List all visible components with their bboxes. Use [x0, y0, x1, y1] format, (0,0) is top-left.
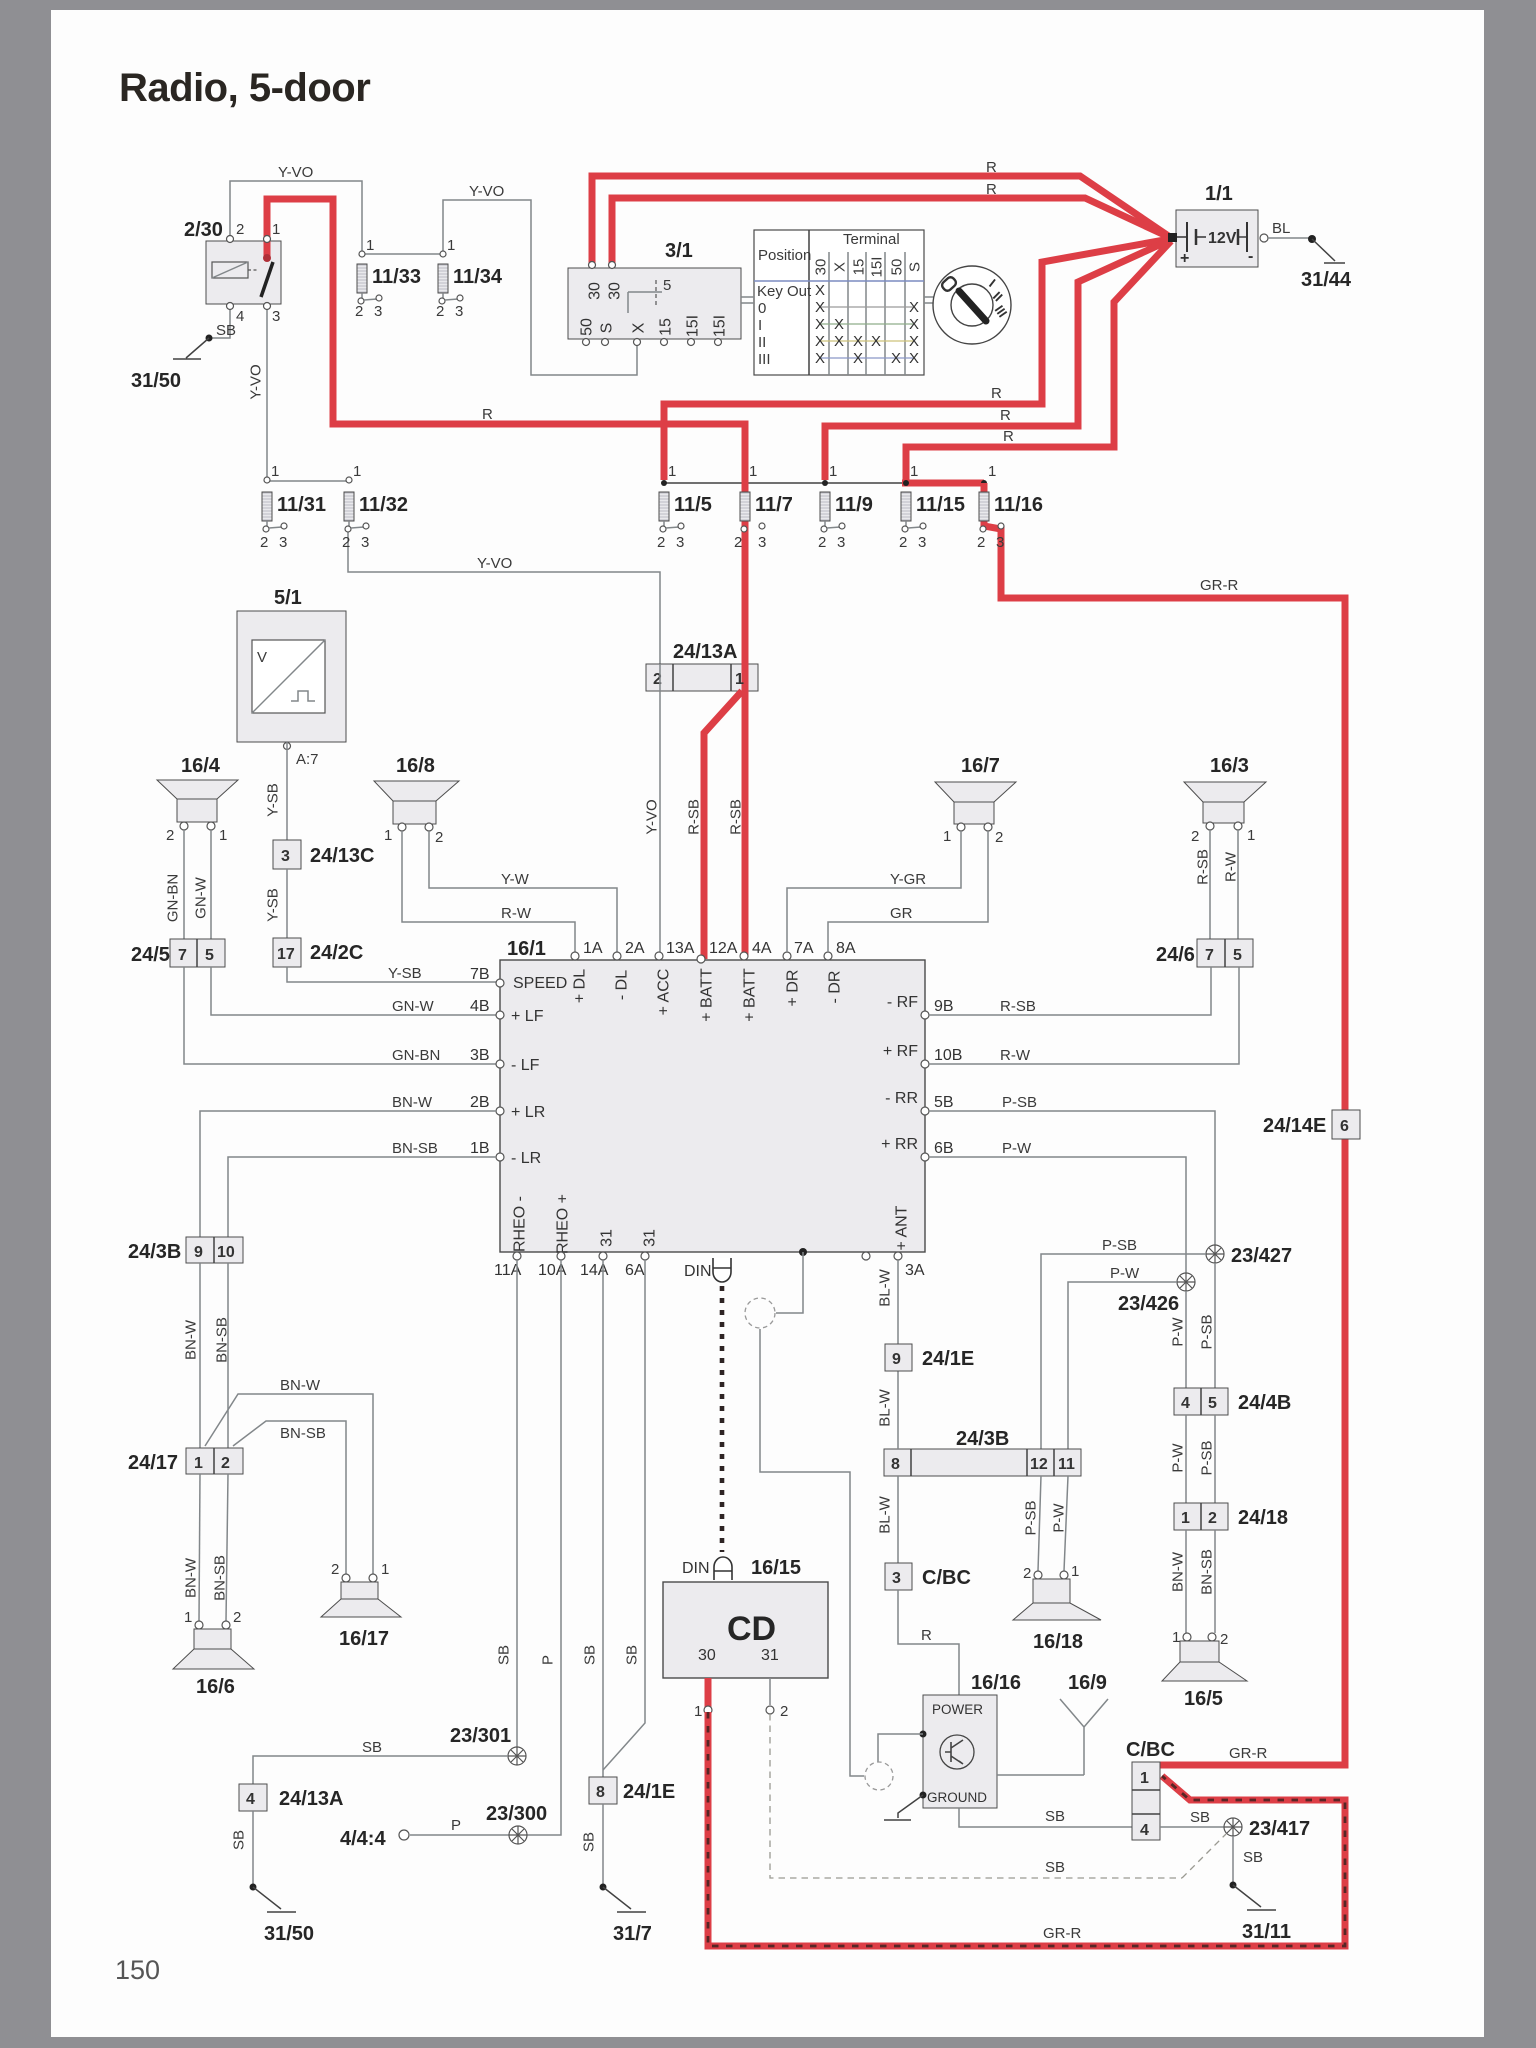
svg-text:V: V: [257, 649, 267, 666]
key switch icon: [933, 266, 1011, 344]
svg-text:2B: 2B: [470, 1094, 490, 1111]
svg-text:11: 11: [1058, 1456, 1075, 1473]
svg-text:R-SB: R-SB: [1194, 849, 1211, 885]
svg-text:31/44: 31/44: [1301, 269, 1352, 291]
svg-text:+ RR: + RR: [881, 1136, 918, 1153]
svg-text:SB: SB: [1190, 1809, 1210, 1826]
wire P-SB 23/427 down to 24/4B-5: [1214, 1263, 1216, 1388]
wire SB pin 11A to splice 23/301: [516, 1260, 518, 1747]
svg-text:SB: SB: [230, 1830, 247, 1850]
svg-text:1: 1: [943, 828, 951, 845]
svg-text:R-SB: R-SB: [1000, 998, 1036, 1015]
wires 24/3B to speaker 16/18: [1038, 1476, 1041, 1571]
svg-text:X: X: [815, 333, 825, 350]
svg-text:+ ANT: + ANT: [894, 1205, 911, 1250]
svg-text:24/17: 24/17: [128, 1452, 178, 1474]
wire GN-BN 24/5 to pin 3B: [184, 967, 496, 1064]
ignition switch 3/1 red feeds to battery: [592, 176, 1170, 266]
wires 24/18 to speaker 16/5: [1185, 1530, 1187, 1633]
wire R-W 16/8-1 to pin 1A: [402, 831, 575, 952]
fuse 11/34: [440, 251, 446, 257]
svg-text:Y-VO: Y-VO: [247, 364, 264, 399]
wire SB 23/301 to 24/13A-4: [253, 1756, 508, 1784]
svg-text:SB: SB: [362, 1739, 382, 1756]
svg-text:SB: SB: [1045, 1859, 1065, 1876]
dashed circle connector at DIN: [745, 1298, 775, 1328]
red through fuse 11/16 down right side GR-R: [984, 483, 1345, 1765]
fuse row bus wire: [664, 482, 906, 484]
svg-text:9: 9: [194, 1244, 203, 1261]
svg-text:30: 30: [698, 1647, 716, 1664]
svg-text:P-W: P-W: [1169, 1317, 1186, 1347]
svg-text:SB: SB: [1045, 1808, 1065, 1825]
svg-text:24/5: 24/5: [131, 944, 170, 966]
svg-text:7A: 7A: [794, 940, 814, 957]
svg-text:2: 2: [1191, 828, 1199, 845]
svg-text:3: 3: [837, 534, 845, 551]
svg-text:0: 0: [758, 300, 766, 317]
wire BN-W 16/17-1 to 24/17-1: [205, 1394, 373, 1574]
svg-text:5: 5: [1233, 947, 1242, 964]
svg-text:31/50: 31/50: [131, 370, 181, 392]
svg-text:24/1E: 24/1E: [623, 1781, 675, 1803]
svg-text:BN-W: BN-W: [182, 1319, 199, 1360]
svg-text:Y-VO: Y-VO: [278, 164, 313, 181]
wire Y-VO through 24/13A cell 2: [659, 664, 661, 691]
svg-text:6B: 6B: [934, 1140, 954, 1157]
svg-text:X: X: [834, 333, 844, 350]
svg-text:POWER: POWER: [932, 1702, 983, 1717]
svg-text:11/33: 11/33: [372, 266, 421, 288]
svg-text:SB: SB: [623, 1645, 640, 1665]
svg-text:Terminal: Terminal: [843, 231, 900, 248]
wire Y-GR 16/7-1 to pin 7A: [787, 831, 961, 952]
wire link 11/33 to 11/34: [362, 253, 443, 255]
svg-text:4: 4: [236, 308, 244, 325]
svg-text:4/4:4: 4/4:4: [340, 1828, 386, 1850]
DIN plug at CD: [714, 1557, 732, 1580]
svg-text:24/14E: 24/14E: [1263, 1115, 1326, 1137]
svg-text:1A: 1A: [583, 940, 603, 957]
svg-text:12V: 12V: [1208, 230, 1237, 247]
wire SB C/BC-4 to splice 23/417: [1160, 1826, 1224, 1828]
svg-text:11/31: 11/31: [277, 494, 326, 516]
svg-text:3: 3: [676, 534, 684, 551]
svg-text:BN-SB: BN-SB: [280, 1425, 326, 1442]
svg-text:6A: 6A: [625, 1262, 645, 1279]
svg-text:III: III: [758, 351, 771, 368]
svg-text:23/427: 23/427: [1231, 1245, 1292, 1267]
svg-text:X: X: [891, 350, 901, 367]
svg-text:BN-SB: BN-SB: [211, 1555, 228, 1601]
svg-text:Position: Position: [758, 247, 811, 264]
wire Y-VO relay pin3 down to fuse 11/31: [266, 306, 268, 478]
connector C/BC (1,4) right: [1132, 1762, 1160, 1840]
svg-text:BL-W: BL-W: [876, 1495, 893, 1533]
svg-text:2: 2: [355, 303, 363, 320]
wire P-SB pin 5B to splice 23/427: [929, 1111, 1215, 1245]
wire Y-SB 24/13C to 24/2C: [286, 869, 288, 938]
svg-text:24/13A: 24/13A: [279, 1788, 344, 1810]
svg-text:1: 1: [668, 463, 676, 480]
connector 24/13A (4): [239, 1784, 267, 1811]
svg-text:BN-SB: BN-SB: [392, 1140, 438, 1157]
svg-text:2: 2: [1208, 1510, 1217, 1527]
battery 1/1: [1176, 210, 1258, 267]
wire R-W 24/6 to pin 10B: [929, 967, 1239, 1064]
speaker 16/6: [195, 1621, 203, 1629]
svg-text:SB: SB: [581, 1645, 598, 1665]
svg-text:2: 2: [342, 534, 350, 551]
svg-text:5/1: 5/1: [274, 587, 302, 609]
svg-text:1: 1: [381, 1561, 389, 1578]
wires 24/3B to 24/17: [199, 1263, 201, 1448]
wire Y-SB 5/1 to 24/13C: [286, 742, 288, 840]
svg-text:R: R: [1003, 428, 1014, 445]
svg-text:24/3B: 24/3B: [128, 1241, 181, 1263]
svg-text:10A: 10A: [538, 1262, 567, 1279]
connector 24/1E (8): [589, 1777, 617, 1804]
fuse 11/33: [359, 251, 365, 257]
svg-text:GR-R: GR-R: [1043, 1925, 1081, 1942]
svg-text:X: X: [853, 350, 863, 367]
svg-text:2: 2: [221, 1455, 230, 1472]
svg-text:11/9: 11/9: [835, 494, 873, 516]
red R-SB branch 24/13A pin1 to pin 12A: [704, 691, 742, 959]
wire SB pin 6A to 24/1E-8: [603, 1260, 645, 1770]
svg-text:1: 1: [910, 463, 918, 480]
svg-text:3: 3: [272, 308, 280, 325]
svg-text:GR: GR: [890, 905, 913, 922]
svg-text:Y-SB: Y-SB: [388, 965, 422, 982]
svg-text:P-W: P-W: [1050, 1503, 1067, 1533]
svg-text:Y-SB: Y-SB: [264, 888, 281, 922]
svg-text:SB: SB: [495, 1645, 512, 1665]
svg-text:+ BATT: + BATT: [742, 968, 759, 1022]
svg-text:10: 10: [217, 1244, 235, 1261]
wire SB 24/1E-8 to ground 31/7: [602, 1804, 604, 1887]
wire BN-SB pin 1B to 24/3B-10: [228, 1157, 496, 1237]
svg-text:4A: 4A: [752, 940, 772, 957]
svg-text:5B: 5B: [934, 1094, 954, 1111]
red wire CD pin30 down: [705, 1678, 712, 1708]
svg-text:2: 2: [166, 827, 174, 844]
connector 24/2C (17): [273, 938, 301, 967]
ignition switch 3/1: [568, 268, 741, 339]
svg-text:2: 2: [977, 534, 985, 551]
splice 23/417: [1224, 1818, 1242, 1836]
svg-text:24/13C: 24/13C: [310, 845, 375, 867]
svg-text:S: S: [599, 323, 616, 334]
fuse 11/32: [346, 477, 352, 483]
CD player 16/15: [663, 1582, 828, 1678]
wire Y-SB 24/2C to pin 7B: [287, 967, 496, 982]
svg-text:X: X: [815, 299, 825, 316]
svg-text:2: 2: [435, 829, 443, 846]
svg-text:S: S: [906, 262, 923, 272]
svg-text:2: 2: [236, 221, 244, 238]
svg-text:GN-W: GN-W: [192, 876, 209, 918]
svg-text:31/7: 31/7: [613, 1923, 652, 1945]
svg-text:P: P: [539, 1655, 556, 1665]
svg-text:4: 4: [246, 1791, 255, 1808]
svg-text:24/1E: 24/1E: [922, 1348, 974, 1370]
wires 24/17 to speaker 16/6: [199, 1474, 200, 1621]
wire shield from 16/1 dot to dashed connector circle: [776, 1252, 803, 1313]
svg-text:1B: 1B: [470, 1140, 490, 1157]
svg-text:9B: 9B: [934, 998, 954, 1015]
svg-text:II: II: [758, 334, 766, 351]
svg-text:+: +: [1180, 250, 1189, 267]
svg-text:12: 12: [1030, 1456, 1048, 1473]
svg-text:31: 31: [642, 1229, 659, 1247]
connector 24/3B long (8|..|12|11): [884, 1449, 1081, 1476]
svg-text:16/9: 16/9: [1068, 1672, 1107, 1694]
svg-text:5: 5: [205, 947, 214, 964]
speaker 16/18: [1034, 1571, 1042, 1579]
wire SB ground chain 16/16 to C/BC-4: [959, 1808, 1132, 1827]
splice 23/301: [508, 1747, 526, 1765]
svg-text:1: 1: [366, 237, 374, 254]
ground 31/50 lower: [253, 1887, 296, 1912]
wire Y-W 16/8-2 to pin 2A: [429, 831, 617, 952]
svg-text:R-SB: R-SB: [727, 799, 744, 835]
svg-text:2: 2: [331, 1561, 339, 1578]
wire 16/16 to antenna: [997, 1774, 1084, 1776]
svg-text:12A: 12A: [709, 940, 738, 957]
svg-text:1: 1: [1140, 1770, 1149, 1787]
svg-text:1/1: 1/1: [1205, 183, 1233, 205]
svg-text:1: 1: [353, 463, 361, 480]
svg-text:X: X: [871, 333, 881, 350]
svg-text:P-SB: P-SB: [1002, 1094, 1037, 1111]
svg-text:2: 2: [899, 534, 907, 551]
speaker 16/17: [342, 1574, 350, 1582]
svg-text:SB: SB: [1243, 1849, 1263, 1866]
svg-text:Radio, 5-door: Radio, 5-door: [119, 66, 370, 110]
svg-text:4: 4: [1140, 1822, 1149, 1839]
wire GN-W 24/5 to pin 4B: [211, 967, 496, 1015]
wire P-W pin 6B to splice 23/426: [929, 1157, 1186, 1273]
table position/terminal: [754, 230, 924, 375]
wire BN-W pin 2B to 24/3B-9: [200, 1111, 496, 1237]
dashed circle connector at power antenna: [865, 1762, 893, 1790]
svg-text:15I: 15I: [868, 257, 885, 278]
svg-text:30: 30: [812, 259, 829, 276]
svg-text:- LF: - LF: [511, 1057, 540, 1074]
svg-text:+ DL: + DL: [572, 969, 589, 1003]
wires 24/4B to 24/18: [1185, 1415, 1187, 1503]
red feed battery to fuse 11/5: [664, 239, 1170, 480]
svg-text:P-SB: P-SB: [1102, 1237, 1137, 1254]
svg-text:SB: SB: [216, 322, 236, 339]
svg-text:BL-W: BL-W: [876, 1268, 893, 1306]
svg-text:17: 17: [277, 946, 295, 963]
svg-text:X: X: [909, 333, 919, 350]
svg-text:Y-GR: Y-GR: [890, 871, 926, 888]
svg-text:1: 1: [749, 463, 757, 480]
svg-text:11/32: 11/32: [359, 494, 408, 516]
svg-text:X: X: [834, 316, 844, 333]
svg-text:30: 30: [607, 282, 624, 300]
connector 24/14E (6) on red line: [1332, 1110, 1360, 1139]
svg-text:24/18: 24/18: [1238, 1507, 1288, 1529]
wire SB pin 14A to 24/1E-8: [602, 1260, 604, 1777]
svg-text:15I: 15I: [712, 315, 729, 337]
svg-text:BN-SB: BN-SB: [213, 1317, 230, 1363]
svg-text:50: 50: [888, 259, 905, 276]
red R-SB through 24/13A cell 1: [742, 662, 749, 693]
svg-text:R-SB: R-SB: [685, 799, 702, 835]
red feed battery to fuse 11/15: [906, 241, 1171, 480]
wire BL-W pin 3A chain down: [897, 1260, 899, 1563]
ground 31/11: [1233, 1885, 1276, 1910]
svg-text:GR-R: GR-R: [1229, 1745, 1267, 1762]
svg-text:GN-W: GN-W: [392, 998, 434, 1015]
svg-text:GN-BN: GN-BN: [164, 874, 181, 922]
svg-text:5: 5: [663, 277, 671, 294]
speaker 16/5: [1183, 1633, 1191, 1641]
wire P-SB 23/427 left to 24/3B-12: [1041, 1254, 1206, 1449]
svg-text:RHEO -: RHEO -: [512, 1196, 529, 1252]
svg-text:150: 150: [115, 1955, 160, 1985]
connector 24/13C (3): [273, 840, 301, 869]
svg-text:3: 3: [996, 534, 1004, 551]
svg-text:X: X: [853, 333, 863, 350]
svg-text:A:7: A:7: [296, 751, 319, 768]
svg-text:16/15: 16/15: [751, 1557, 801, 1579]
svg-text:16/18: 16/18: [1033, 1631, 1083, 1653]
svg-text:P-SB: P-SB: [1198, 1440, 1215, 1475]
svg-text:23/301: 23/301: [450, 1725, 511, 1747]
svg-text:3: 3: [281, 848, 290, 865]
svg-text:- LR: - LR: [511, 1150, 541, 1167]
red feed battery to fuse 11/9: [825, 240, 1170, 480]
svg-text:31: 31: [761, 1647, 779, 1664]
wire BL battery minus to ground 31/44: [1260, 234, 1268, 242]
svg-text:RHEO +: RHEO +: [555, 1194, 572, 1254]
svg-text:1: 1: [272, 221, 280, 238]
svg-text:23/300: 23/300: [486, 1803, 547, 1825]
wire R C/BC-3 to power antenna 16/16: [898, 1590, 959, 1695]
svg-text:2/30: 2/30: [184, 219, 223, 241]
svg-text:R: R: [482, 406, 493, 423]
svg-text:9: 9: [892, 1351, 901, 1368]
connector 24/13A (2|1): [646, 664, 758, 691]
svg-text:8A: 8A: [836, 940, 856, 957]
svg-text:1: 1: [1071, 1563, 1079, 1580]
wire Y-VO fuse 11/34 to ignition X: [443, 200, 637, 375]
svg-text:16/4: 16/4: [181, 755, 221, 777]
pin circles left: [496, 979, 504, 987]
svg-text:+ DR: + DR: [785, 970, 802, 1007]
svg-text:30: 30: [587, 282, 604, 300]
svg-text:GN-BN: GN-BN: [392, 1047, 440, 1064]
svg-text:R-W: R-W: [1000, 1047, 1031, 1064]
junction dot on 16/1 bottom: [799, 1248, 807, 1256]
pin circles bottom: [513, 1252, 521, 1260]
connector C/BC (3): [885, 1563, 912, 1590]
wire link 11/31 to 11/32: [267, 480, 349, 482]
svg-text:BN-SB: BN-SB: [1198, 1549, 1215, 1595]
svg-text:1: 1: [194, 1455, 203, 1472]
svg-text:- DR: - DR: [827, 971, 844, 1004]
svg-text:CD: CD: [727, 1610, 776, 1648]
svg-text:1: 1: [219, 827, 227, 844]
wire relay pin4 to ground: [209, 306, 230, 338]
wire GR 16/7-2 to pin 8A: [828, 831, 988, 952]
wire Y-VO relay pin2 to fuse 11/33: [230, 181, 362, 252]
svg-text:2: 2: [260, 534, 268, 551]
svg-text:2A: 2A: [625, 940, 645, 957]
red R-SB 11/7 down to pin 4A: [742, 480, 749, 957]
svg-text:2: 2: [1023, 1565, 1031, 1582]
splice 23/426: [1177, 1273, 1195, 1291]
DIN dashed cable: [720, 1286, 725, 1552]
svg-text:15: 15: [850, 259, 867, 276]
svg-text:+ LF: + LF: [511, 1008, 544, 1025]
svg-text:X: X: [909, 299, 919, 316]
svg-text:16/1: 16/1: [507, 938, 546, 960]
svg-text:GROUND: GROUND: [927, 1790, 987, 1805]
connector 24/17 (1|2): [186, 1448, 243, 1474]
wire SB 23/417 to ground 31/11: [1232, 1836, 1234, 1885]
svg-text:2: 2: [233, 1609, 241, 1626]
svg-text:2: 2: [780, 1703, 788, 1720]
svg-text:3/1: 3/1: [665, 240, 693, 262]
svg-text:16/6: 16/6: [196, 1676, 235, 1698]
svg-text:1: 1: [735, 671, 744, 688]
svg-text:11/16: 11/16: [994, 494, 1043, 516]
ground 31/50 upper: [173, 338, 209, 359]
svg-text:2: 2: [818, 534, 826, 551]
svg-text:1: 1: [1247, 827, 1255, 844]
svg-text:15I: 15I: [685, 315, 702, 337]
svg-text:X: X: [831, 262, 848, 272]
connector 24/18 (1|2): [1174, 1503, 1228, 1530]
svg-text:P-SB: P-SB: [1198, 1314, 1215, 1349]
svg-text:2: 2: [1220, 1631, 1228, 1648]
wire Y-VO 24/13A-2 down to pin 13A: [659, 691, 661, 956]
svg-text:16/7: 16/7: [961, 755, 1000, 777]
svg-text:24/6: 24/6: [1156, 944, 1195, 966]
svg-text:11/7: 11/7: [755, 494, 793, 516]
svg-text:3: 3: [758, 534, 766, 551]
wire SB 24/13A-4 to ground 31/50: [252, 1811, 254, 1887]
svg-text:31/50: 31/50: [264, 1923, 314, 1945]
svg-text:C/BC: C/BC: [1126, 1739, 1175, 1761]
connector 24/1E (9): [885, 1344, 912, 1371]
svg-text:31: 31: [599, 1229, 616, 1247]
svg-text:3A: 3A: [905, 1262, 925, 1279]
wire CD pin31 down dashed to SB line: [769, 1678, 771, 1705]
svg-text:14A: 14A: [580, 1262, 609, 1279]
connector 24/5 (7|5): [170, 939, 225, 967]
svg-text:DIN: DIN: [682, 1560, 710, 1577]
svg-text:24/13A: 24/13A: [673, 641, 738, 663]
svg-text:16/5: 16/5: [1184, 1688, 1223, 1710]
svg-text:R: R: [986, 181, 997, 198]
red dashed GR-R loop CD to C/BC: [708, 1712, 1345, 1946]
svg-text:1: 1: [271, 463, 279, 480]
svg-text:+ LR: + LR: [511, 1104, 545, 1121]
svg-text:3: 3: [918, 534, 926, 551]
svg-text:+ ACC: + ACC: [656, 969, 673, 1016]
svg-text:8: 8: [891, 1456, 900, 1473]
svg-text:15: 15: [658, 318, 675, 336]
wires 16/3 to 24/6: [1210, 830, 1238, 939]
svg-text:3: 3: [892, 1570, 901, 1587]
